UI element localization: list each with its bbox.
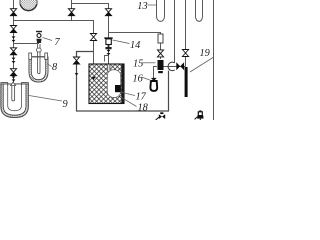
svg-text:15: 15 [133,59,143,70]
svg-text:7: 7 [55,37,61,48]
svg-text:16: 16 [133,73,144,84]
svg-text:14: 14 [130,40,140,51]
svg-text:17: 17 [136,91,147,102]
svg-text:8: 8 [52,62,58,73]
svg-text:19: 19 [200,48,210,59]
svg-text:9: 9 [63,99,68,110]
svg-text:13: 13 [137,1,147,12]
svg-text:18: 18 [138,102,149,113]
